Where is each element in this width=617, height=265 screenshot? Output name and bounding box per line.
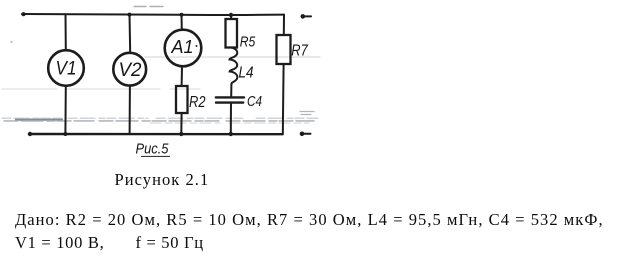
wire A1 to R2 (181, 66, 183, 86)
wire R2 to bottom (180, 113, 182, 134)
capacitor C4 top plate (216, 96, 244, 98)
wire V2 branch lower (129, 86, 131, 134)
svg-text:L4: L4 (239, 64, 254, 81)
wire R7 to bottom corner (282, 64, 285, 134)
svg-text:V1: V1 (56, 59, 77, 80)
bottom wire left end dot (28, 132, 32, 136)
wire V1 branch upper (65, 14, 67, 50)
voltmeter V2 (113, 53, 146, 86)
bottom wire (29, 133, 283, 136)
wire V2 branch upper (129, 15, 132, 53)
wire A1 branch upper (181, 15, 183, 30)
resistor R2 (176, 86, 188, 113)
scan artifact gray line above top wire (134, 6, 163, 8)
node V1-bottom (63, 132, 67, 136)
node C4-bottom (229, 132, 233, 136)
voltmeter V1 (48, 50, 84, 86)
inductor L4 (230, 48, 238, 85)
caption underline (141, 155, 170, 157)
svg-text:R7: R7 (291, 42, 308, 59)
resistor R7 (277, 35, 291, 64)
svg-text:A1: A1 (171, 37, 194, 57)
scan artifact dark smear left (16, 118, 62, 120)
node A1-top (180, 13, 184, 17)
resistor R5 (226, 19, 238, 48)
node R5-top (229, 13, 233, 17)
svg-text:V2: V2 (119, 60, 142, 81)
text: given values line 2 (15, 233, 204, 253)
scan artifact gray line mid (145, 56, 320, 58)
speckle near A1 (196, 45, 198, 47)
wire L4 to C4 (230, 84, 232, 97)
text: figure number (115, 170, 210, 190)
wire V1 branch lower (64, 86, 66, 134)
speckle left margin (10, 41, 12, 43)
circuit schematic figure (scanned) (0, 0, 330, 168)
text: given values line 1 (15, 210, 604, 230)
node R2-bottom (179, 132, 183, 136)
wire top to R7 corner (283, 15, 285, 35)
wire R5 branch stub (230, 15, 232, 19)
capacitor C4 bottom plate (216, 101, 243, 103)
node V2-top (128, 13, 132, 17)
top wire left end dot (21, 12, 25, 16)
svg-text:Рис.5: Рис.5 (136, 141, 170, 157)
terminal bottom-right (302, 133, 311, 135)
top wire (22, 14, 284, 15)
svg-text:R5: R5 (240, 34, 256, 50)
scan artifact gray lines lower (2, 117, 318, 119)
ammeter A1 (165, 30, 202, 67)
svg-text:C4: C4 (247, 93, 262, 110)
wire C4 to bottom (230, 103, 232, 134)
svg-text:R2: R2 (189, 94, 206, 111)
terminal top-right (303, 15, 312, 17)
